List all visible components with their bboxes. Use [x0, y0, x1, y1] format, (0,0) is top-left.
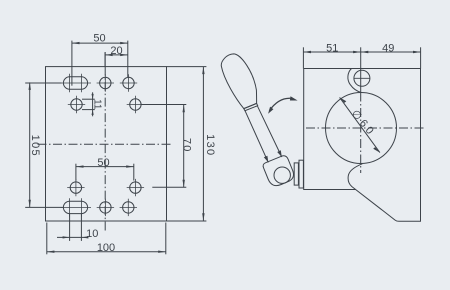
svg-text:10: 10	[86, 228, 98, 240]
svg-text:50: 50	[97, 157, 109, 169]
svg-text:105: 105	[29, 135, 41, 157]
svg-text:51: 51	[326, 42, 338, 54]
svg-text:50: 50	[93, 32, 105, 44]
svg-text:20: 20	[110, 45, 122, 57]
svg-text:49: 49	[382, 42, 394, 54]
svg-text:100: 100	[97, 242, 115, 254]
svg-text:11: 11	[91, 99, 102, 110]
svg-text:70: 70	[181, 138, 193, 153]
svg-text:130: 130	[204, 134, 216, 156]
